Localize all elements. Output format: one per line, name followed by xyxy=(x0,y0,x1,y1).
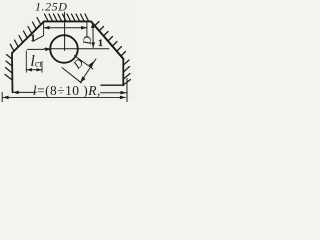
arrowhead 1.25D left xyxy=(44,26,50,30)
leader for label 1 left xyxy=(33,36,43,42)
l_ct dim line xyxy=(27,69,42,71)
left chamfer edge xyxy=(12,21,44,53)
arrowhead outer bottom right xyxy=(120,96,126,100)
bottom dim line right part xyxy=(101,92,127,94)
hatching left wall xyxy=(5,55,12,81)
svg-text:1: 1 xyxy=(31,33,36,43)
arrowhead bottom right xyxy=(121,91,127,95)
svg-text:l=(8÷10 )R,: l=(8÷10 )R, xyxy=(33,83,101,98)
l_ct arrow line to circle (merged with center line) xyxy=(28,48,45,50)
l_ct right extension xyxy=(41,62,43,73)
top edge line xyxy=(44,20,91,22)
arrowhead outer bottom left xyxy=(3,96,9,100)
arrowhead D45 sw xyxy=(80,76,85,82)
hatching right wall xyxy=(124,60,131,85)
arrowhead l_ct dim left xyxy=(27,68,32,71)
right wall edge xyxy=(122,59,124,86)
right chamfer edge xyxy=(91,21,123,58)
dim D45 upper ray xyxy=(75,56,94,69)
arrowhead D45 ne xyxy=(89,61,94,67)
hole circle xyxy=(50,35,78,63)
horizontal center line xyxy=(44,48,109,50)
bottom edge stub right xyxy=(101,84,123,86)
dim 1.25D left extension xyxy=(43,22,45,36)
l_ct left extension xyxy=(25,51,27,73)
dim D45 lower ray xyxy=(62,68,81,83)
arrowhead 1.25D right xyxy=(81,26,87,30)
svg-text:1.25D: 1.25D xyxy=(35,0,67,14)
dim 1.25D line xyxy=(44,27,87,29)
bottom dim right extension xyxy=(126,79,128,102)
dim D45 dim line xyxy=(80,59,96,83)
left wall edge xyxy=(11,53,14,92)
arrowhead bottom left xyxy=(13,91,19,95)
arrowhead D bottom (down) xyxy=(91,42,95,48)
dim 1.25D right extension xyxy=(86,23,88,37)
hatching right chamfer xyxy=(95,22,126,56)
hatching top flat xyxy=(45,14,89,21)
outer bottom dim left extension xyxy=(1,93,3,102)
hatching left chamfer xyxy=(10,18,40,51)
arrowhead l_ct dim right xyxy=(37,68,42,71)
bottom dim line left part xyxy=(13,91,36,93)
svg-text:1: 1 xyxy=(98,38,103,48)
dim D vertical line xyxy=(92,23,94,48)
outer bottom dim line xyxy=(3,96,126,98)
arrowhead l_ct to circle (right) xyxy=(45,47,51,51)
svg-text:D: D xyxy=(80,36,94,46)
vertical center line xyxy=(64,12,66,51)
arrowhead D top (up) xyxy=(91,22,95,28)
